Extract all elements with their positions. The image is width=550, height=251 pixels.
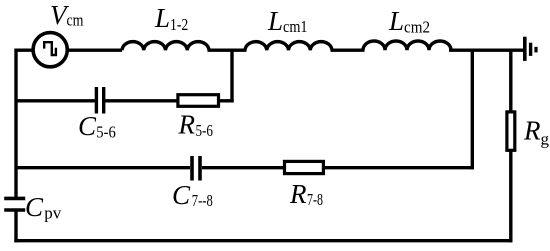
row 3 wire: R7-8 to right junction x=472 <box>325 166 474 169</box>
row 3 wire: C7-8 to R7-8 <box>202 166 284 169</box>
svg-text:7-8: 7-8 <box>307 190 323 209</box>
svg-text:pv: pv <box>44 203 62 222</box>
wire: Lcm1 to Lcm2 <box>331 49 365 52</box>
capacitor C7-8 plates <box>190 156 194 181</box>
wire: left vertical bus below C_pv to bottom wire <box>14 211 17 243</box>
row 3 wire: left bus to C7-8 <box>16 166 190 169</box>
svg-text:cm2: cm2 <box>404 18 430 37</box>
ground symbol top right <box>523 37 527 61</box>
svg-text:5-6: 5-6 <box>96 123 116 142</box>
row 2 wire: C5-6 to R5-6 <box>105 99 177 102</box>
wire: L1-2 to Lcm1 <box>208 49 247 52</box>
resistor R5-6 box <box>178 95 219 107</box>
svg-text:R: R <box>289 179 307 209</box>
wire: junction vertical (node after Lcm2) down to row3 <box>471 50 474 169</box>
svg-text:C: C <box>78 111 97 141</box>
resistor R7-8 box <box>285 161 324 173</box>
inductor Lcm1 (4 humps) <box>245 42 332 51</box>
wire: right vertical bus, R_g to bottom wire <box>509 150 512 242</box>
svg-text:R: R <box>178 110 196 140</box>
svg-text:C: C <box>25 192 44 222</box>
wire: V_cm circle to L_1-2 <box>67 49 123 52</box>
row 2 wire: R5-6 to junction node <box>220 99 234 102</box>
svg-text:5-6: 5-6 <box>196 121 214 140</box>
svg-text:7--8: 7--8 <box>192 191 213 210</box>
row 2 wire: left bus to C5-6 <box>16 99 95 102</box>
wire: junction vertical (node between L1-2 and Lcm1) down to row2 <box>230 50 233 102</box>
capacitor C5-6 plates <box>95 87 98 114</box>
wire: right vertical bus, top wire to R_g <box>509 50 512 112</box>
wire: from left bus to V_cm circle <box>16 49 34 52</box>
square-wave glyph inside V_cm <box>44 42 56 55</box>
svg-text:1-2: 1-2 <box>170 15 188 34</box>
svg-text:R: R <box>523 116 541 146</box>
wire: bottom horizontal (y=240.7) <box>14 239 512 242</box>
svg-text:cm: cm <box>67 11 84 30</box>
inductor L1-2 (4 humps) <box>122 42 209 51</box>
resistor R_g box (vertical) <box>507 112 515 150</box>
wire: left vertical bus (x=16) from source level down to top C_pv plate <box>14 49 17 199</box>
svg-text:cm1: cm1 <box>283 17 308 36</box>
svg-text:L: L <box>267 6 283 36</box>
svg-text:g: g <box>541 130 550 149</box>
voltage source V_cm circle <box>33 33 67 67</box>
svg-text:L: L <box>388 6 404 36</box>
capacitor C_pv plates (horizontal, on left bus) <box>4 197 25 201</box>
wire: Lcm2 to ground <box>449 49 523 52</box>
inductor Lcm2 (4 humps) <box>363 41 451 50</box>
svg-text:C: C <box>172 180 191 210</box>
svg-text:L: L <box>154 3 170 33</box>
